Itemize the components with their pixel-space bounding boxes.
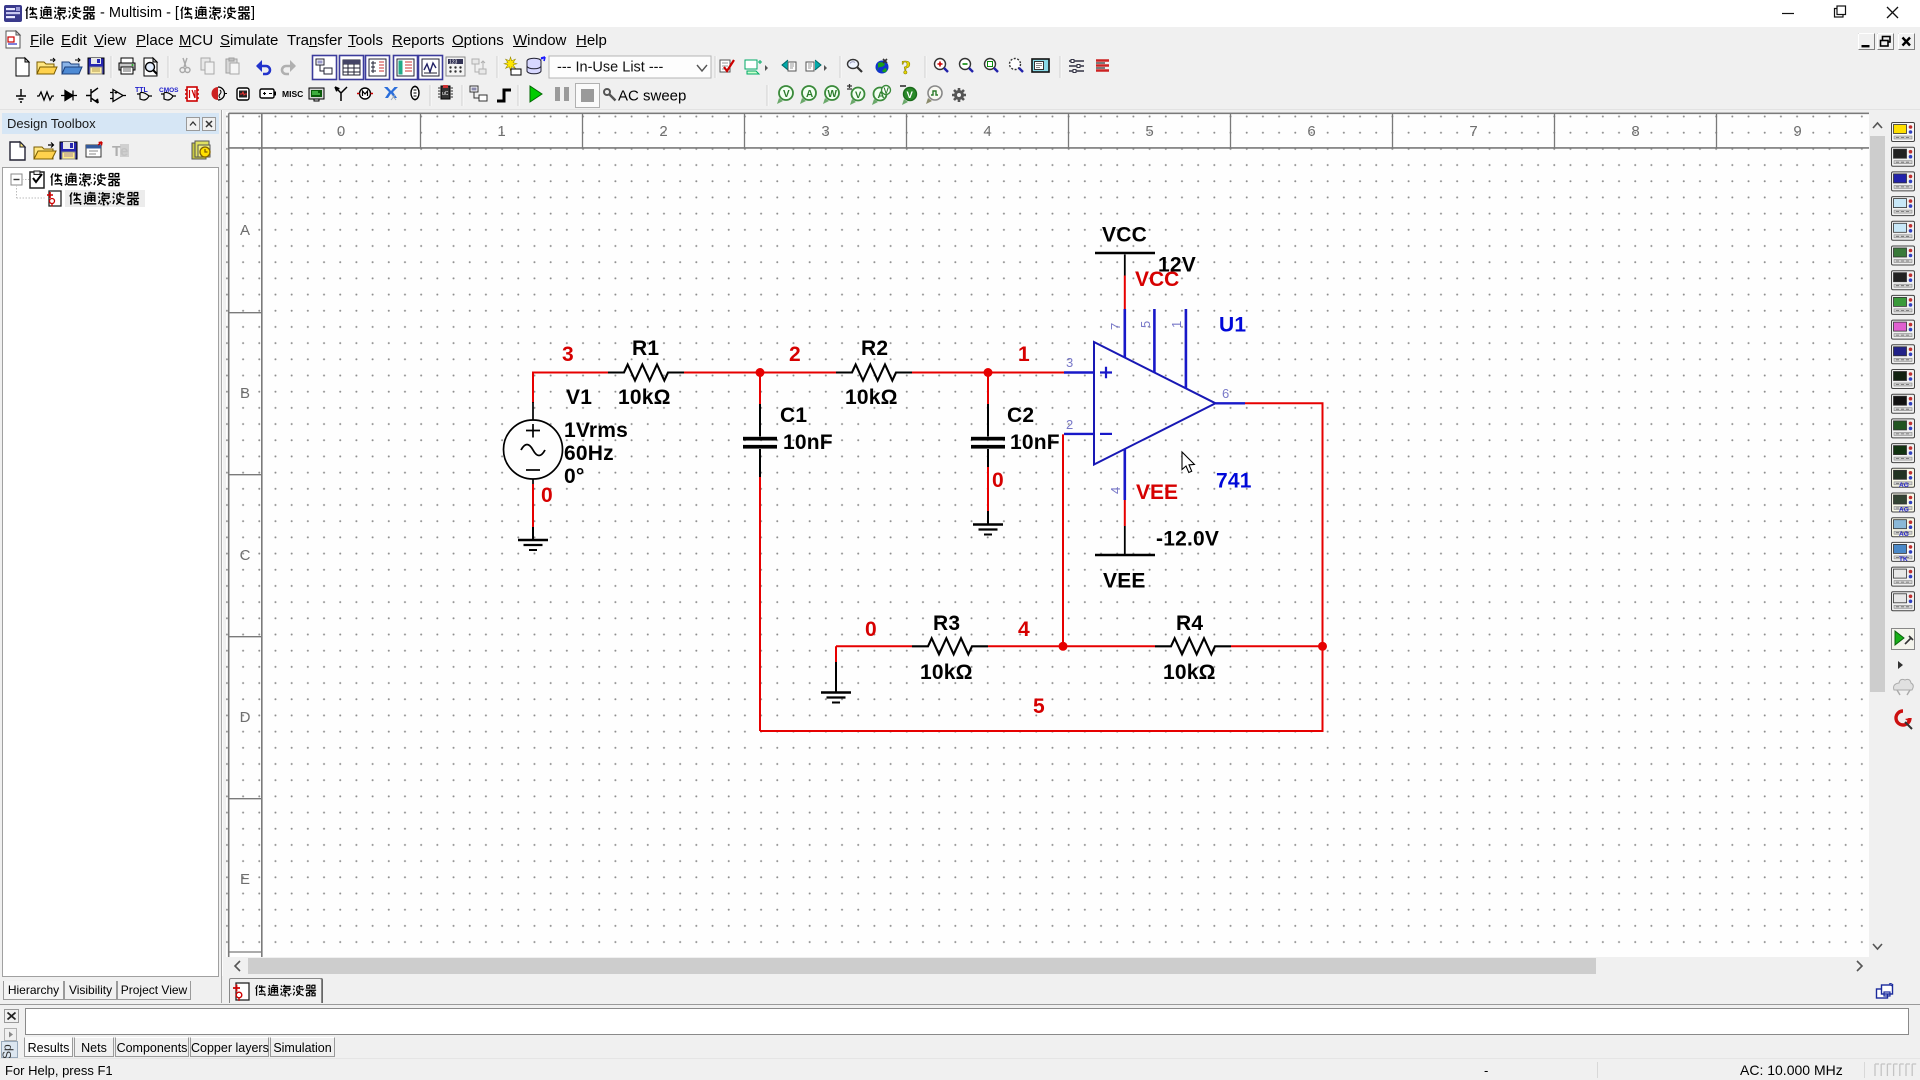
Te disabled icon [112, 143, 129, 160]
pause button (disabled) [555, 87, 569, 101]
resistor group icon [37, 92, 54, 100]
tree expand box [11, 174, 22, 185]
svg-text:D: D [240, 709, 251, 726]
svg-text:10kΩ: 10kΩ [618, 386, 671, 409]
toggle: design toolbox (pressed) [313, 56, 337, 80]
misc digital group icon [185, 87, 199, 101]
copy icon (disabled) [201, 58, 214, 74]
svg-text:U1: U1 [1219, 314, 1246, 337]
svg-text:R2: R2 [861, 337, 888, 360]
save icon [88, 58, 104, 74]
zoom fit icon [1010, 59, 1024, 73]
back annotate icon [782, 60, 796, 71]
instrument icon: Agilent function generator [1892, 468, 1915, 487]
svg-text:8: 8 [1631, 123, 1639, 140]
database manager icon [527, 57, 545, 74]
probe diff voltage icon [847, 84, 865, 105]
svg-text:V: V [907, 90, 914, 101]
probe settings gear icon [952, 88, 966, 102]
svg-text:5: 5 [1145, 123, 1153, 140]
indicator group icon [237, 88, 249, 100]
junction node2 [756, 368, 765, 377]
svg-text:6: 6 [1307, 123, 1315, 140]
svg-text:2: 2 [789, 343, 801, 366]
mixed group icon [212, 87, 228, 100]
svg-text:0: 0 [865, 618, 877, 641]
svg-text:1: 1 [1018, 343, 1030, 366]
probe V&I icon [872, 86, 891, 106]
stop button (disabled, sunken box) [576, 84, 600, 108]
component wizard icon [504, 57, 521, 75]
wire R4 to output [1231, 645, 1323, 647]
wire net5: output [760, 403, 1323, 731]
instrument icon: IV analyzer [1892, 370, 1915, 389]
layers icon [192, 141, 210, 159]
separator [767, 85, 768, 106]
svg-text:VCC: VCC [1135, 268, 1179, 291]
svg-text:V: V [855, 90, 862, 101]
connector group icon [411, 86, 419, 101]
separator [715, 56, 716, 78]
svg-text:741: 741 [1216, 470, 1252, 493]
toggle: LabVIEW co-sim (pressed) [394, 56, 418, 80]
separator [462, 85, 463, 106]
op-amp pin 4 [1124, 449, 1127, 500]
active analysis wrench icon [604, 89, 616, 101]
hierarchy button (disabled) [472, 59, 486, 74]
run button [530, 86, 542, 102]
open file icon [37, 58, 57, 74]
new document icon [16, 58, 29, 76]
wire net4: R3 to R4 [988, 645, 1155, 647]
probe V icon [777, 86, 793, 104]
svg-text:7: 7 [1469, 123, 1477, 140]
svg-text:10kΩ: 10kΩ [845, 386, 898, 409]
svg-text:MISC: MISC [282, 89, 303, 99]
instrument icon: Tektronix oscilloscope [1892, 542, 1915, 561]
SVG defs for CJK glyph approximations [0, 0, 1, 1]
svg-text:VEE: VEE [1103, 570, 1146, 593]
undo icon [256, 60, 270, 74]
resistor R3 [912, 638, 988, 654]
sheet ruler numbers [337, 123, 1802, 140]
toolbar expand arrow [1898, 661, 1903, 669]
VCC power symbol [1095, 252, 1155, 254]
tree root text [51, 173, 120, 186]
op-amp pin 2 wire [1064, 433, 1094, 435]
svg-text:A: A [240, 222, 250, 239]
ground GND1 [518, 540, 548, 550]
svg-text:1Vrms: 1Vrms [564, 419, 628, 442]
instrument icon: network analyzer [1892, 444, 1915, 463]
separator [518, 85, 519, 106]
svg-text:10kΩ: 10kΩ [1163, 661, 1216, 684]
svg-text:5: 5 [1138, 321, 1153, 328]
source group icon [16, 89, 26, 102]
svg-text:--- In-Use List ---: --- In-Use List --- [557, 60, 664, 76]
svg-text:C2: C2 [1007, 404, 1034, 427]
svg-text:AG: AG [1899, 507, 1909, 514]
instrument icon: four-channel oscilloscope [1892, 221, 1915, 240]
svg-text:10nF: 10nF [783, 431, 833, 454]
svg-text:3: 3 [562, 343, 574, 366]
wire net3: V1 to R1 [533, 373, 608, 404]
V1 labels [564, 386, 628, 488]
svg-text:W: W [828, 89, 838, 100]
zoom in icon [935, 59, 949, 73]
probe ref voltage icon (filled) [900, 86, 917, 105]
svg-text:5: 5 [1033, 695, 1045, 718]
svg-text:V: V [884, 87, 890, 96]
mouse cursor [1182, 452, 1194, 473]
svg-text:0: 0 [337, 123, 345, 140]
svg-text:2: 2 [1066, 417, 1073, 432]
cut icon (disabled) [180, 58, 190, 73]
capacitor C2 [987, 373, 989, 405]
op-amp pin 3 wire [1064, 371, 1094, 373]
instrument icon: NI ELVIS instrument [1892, 592, 1915, 611]
internet icon [876, 59, 889, 74]
svg-text:4: 4 [1018, 618, 1030, 641]
ground GND2 [973, 525, 1003, 535]
separator [111, 56, 112, 78]
toggle: SPICE netlist (pressed) [366, 56, 390, 80]
instrument icon: word generator [1892, 295, 1915, 314]
svg-text:C: C [240, 547, 251, 564]
resistor R4 [1155, 638, 1231, 654]
instrument icon: function generator [1892, 147, 1915, 166]
svg-text:1: 1 [1169, 321, 1184, 328]
full screen icon [1032, 59, 1049, 72]
svg-text:6: 6 [1222, 386, 1229, 401]
svg-text:A: A [806, 89, 813, 100]
svg-text:VEE: VEE [1136, 481, 1178, 504]
svg-text:R1: R1 [632, 337, 659, 360]
bottom tabs of design toolbox [3, 981, 64, 1000]
RF group icon [335, 87, 347, 101]
ERC check icon [720, 60, 734, 72]
op-amp pin 5 [1153, 309, 1156, 373]
open sample icon [62, 58, 82, 74]
zoom out icon [960, 59, 974, 73]
svg-text:3: 3 [821, 123, 829, 140]
svg-text:VCC: VCC [1102, 224, 1147, 247]
svg-text:V1: V1 [566, 386, 592, 409]
tree child selection highlight [65, 190, 145, 207]
instrument icon: frequency counter [1892, 271, 1915, 290]
svg-text:V: V [783, 89, 790, 100]
separator [840, 56, 841, 78]
wire V1 to ground (net 0) [532, 484, 534, 527]
svg-text:10kΩ: 10kΩ [920, 661, 973, 684]
tree child text [70, 192, 139, 205]
svg-text:E: E [240, 871, 250, 888]
wire net0 to R3 [836, 646, 912, 662]
wire net1: R2 to op-amp [912, 372, 1064, 374]
advanced peripherals icon [309, 88, 324, 101]
svg-text:?: ? [901, 57, 911, 79]
VEE net wire [1124, 500, 1126, 526]
close design icon [86, 142, 102, 157]
op-amp pin 1 [1185, 309, 1188, 389]
In-Use List combobox [549, 56, 711, 78]
redo icon (disabled) [282, 60, 296, 74]
svg-text:0°: 0° [564, 465, 584, 488]
diode group icon [61, 91, 77, 101]
instrument icon: LabVIEW instrument [1892, 567, 1915, 586]
open design icon [34, 143, 56, 160]
print icon [119, 58, 135, 74]
svg-text:-12.0V: -12.0V [1156, 528, 1219, 551]
capture area icon [745, 60, 768, 74]
toggle: spreadsheet view (pressed) [340, 56, 364, 80]
wire C1 bottom to net5 [759, 477, 761, 731]
resistor R1 [608, 365, 684, 381]
CMOS group icon [159, 87, 179, 100]
pin number labels [1066, 321, 1229, 494]
probe I icon [800, 86, 816, 104]
instrument icon: spectrum analyzer [1892, 419, 1915, 438]
electromechanical group icon [357, 88, 373, 99]
svg-text:AG: AG [1899, 531, 1909, 538]
print preview icon [144, 58, 157, 76]
svg-text:60Hz: 60Hz [564, 442, 614, 465]
capacitor C1 [759, 373, 761, 405]
new design icon [10, 142, 25, 160]
sheet column tick marks [229, 113, 1879, 952]
MCU group icon [438, 85, 453, 99]
separator [497, 56, 498, 78]
instrument icon: Agilent oscilloscope [1892, 518, 1915, 537]
paste icon (disabled) [226, 58, 239, 74]
svg-text:4: 4 [1108, 487, 1123, 494]
wire net2: R1 to node2 and R2 [684, 372, 836, 374]
help icon [901, 57, 911, 79]
op-amp pin 6 wire [1216, 402, 1246, 404]
MDI window buttons [1858, 33, 1916, 51]
transistor group icon [86, 88, 98, 103]
sheet row letters [240, 222, 251, 888]
VEE power symbol [1095, 554, 1155, 556]
svg-text:R3: R3 [933, 612, 960, 635]
svg-text:7: 7 [1108, 323, 1123, 330]
svg-text:R4: R4 [1176, 612, 1203, 635]
measurement probe icon [1892, 629, 1915, 650]
toolbars list icon [1069, 60, 1084, 73]
separator [168, 56, 169, 78]
zoom area icon [985, 59, 999, 73]
svg-text:uC: uC [442, 91, 449, 97]
svg-text:0: 0 [541, 484, 553, 507]
sheet frame top border [229, 113, 1869, 957]
TTL group icon [135, 87, 152, 100]
junction node5-R4 [1318, 642, 1327, 651]
tree root icon (design) [30, 171, 44, 188]
separator [1060, 56, 1061, 78]
svg-text:TK: TK [1899, 556, 1908, 563]
power group icon [260, 89, 276, 98]
svg-text:10nF: 10nF [1010, 431, 1060, 454]
instrument icon: multimeter [1892, 123, 1915, 142]
svg-text:123: 123 [449, 60, 458, 66]
op-amp U1 741 [1094, 342, 1216, 465]
AC source V1 [504, 402, 563, 485]
current clamp probe icon [1896, 711, 1912, 729]
separator [925, 56, 926, 78]
probe power icon [823, 86, 839, 104]
wire net4: feedback vertical [1062, 434, 1064, 646]
instrument icon: oscilloscope [1892, 197, 1915, 216]
svg-text:3: 3 [1066, 355, 1073, 370]
instrument icon: logic converter [1892, 345, 1915, 364]
svg-text:B: B [240, 385, 250, 402]
svg-text:1: 1 [497, 123, 505, 140]
svg-text:9: 9 [1793, 123, 1801, 140]
bus icon [497, 90, 511, 101]
ground GND3 [821, 693, 851, 703]
svg-text:2: 2 [659, 123, 667, 140]
VCC net wire [1124, 276, 1126, 310]
analog group icon [110, 90, 126, 102]
forward annotate icon [806, 60, 827, 71]
instrument icon: wattmeter [1892, 172, 1915, 191]
svg-text:0: 0 [992, 469, 1004, 492]
save design icon [60, 142, 77, 159]
junction node1 [984, 368, 993, 377]
find icon [848, 60, 863, 73]
instrument icon: distortion analyzer [1892, 394, 1915, 413]
MISC group icon [282, 89, 303, 99]
svg-text:AG: AG [1899, 482, 1909, 489]
junction node4 [1059, 642, 1068, 651]
tree child icon (schematic page) [47, 191, 61, 207]
hierarchical block icon [470, 86, 487, 101]
resistor R2 [836, 365, 912, 381]
separator [430, 85, 431, 106]
instrument icon: Agilent multimeter [1892, 493, 1915, 512]
NI components icon [384, 87, 398, 100]
toggle: grapher (pressed) [419, 56, 443, 80]
probe digital icon [926, 86, 942, 104]
svg-text:C1: C1 [780, 404, 807, 427]
wire C2 to ground (net 0) [987, 467, 989, 511]
instrument icon: Bode plotter [1892, 246, 1915, 265]
svg-text:4: 4 [983, 123, 991, 140]
svg-text:AC sweep: AC sweep [618, 88, 686, 105]
LabVIEW instruments icon (disabled) [1894, 679, 1914, 695]
description box icon [1096, 61, 1109, 71]
postprocessor button [446, 57, 465, 76]
instrument icon: logic analyzer [1892, 320, 1915, 339]
op-amp pin 7 [1124, 309, 1127, 358]
